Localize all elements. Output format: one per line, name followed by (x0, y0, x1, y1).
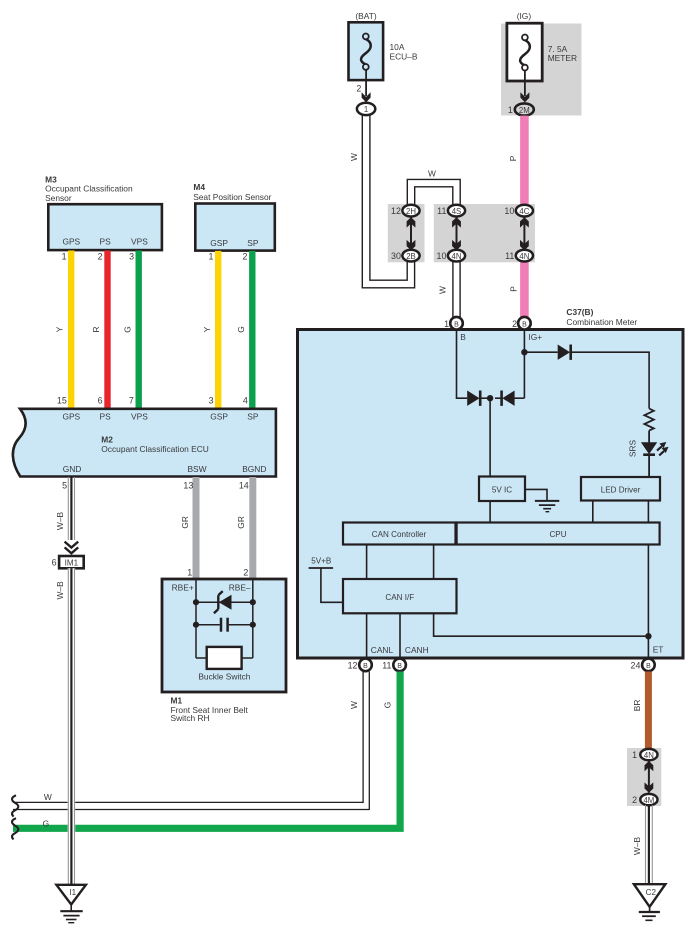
svg-text:PS: PS (100, 237, 112, 247)
node B internal wire (457, 331, 468, 398)
wire W-B (splice IM1 down to ground I1, crosses W and G) (55, 568, 75, 885)
svg-text:RBE–: RBE– (229, 582, 251, 592)
svg-text:GSP: GSP (210, 411, 228, 421)
wire BR (meter pin 24 to connector 4N) (632, 672, 649, 750)
svg-text:M2: M2 (101, 435, 113, 445)
svg-text:P: P (508, 155, 518, 161)
svg-text:VPS: VPS (131, 237, 148, 247)
5V IC to CPU wire (489, 501, 491, 523)
svg-text:4S: 4S (452, 207, 462, 216)
CAN Controller box (343, 523, 456, 545)
wire GR (M2 BSW to M1 pin 1) (180, 477, 196, 580)
wire W vertical (meter pin 12 down) (349, 672, 369, 811)
meter pin 11 (B) CANH (382, 659, 406, 672)
svg-text:Combination Meter: Combination Meter (566, 317, 637, 327)
wire from fuse METER to connector 2M (520, 70, 529, 102)
svg-text:11: 11 (505, 251, 514, 261)
svg-text:B: B (397, 663, 402, 670)
junction block shading (4N/4M connector bottom right) (627, 748, 661, 806)
connector pair 4S/4N with mating arrows (437, 205, 466, 262)
connector pair 4N/4M (bottom) with mating arrows (632, 749, 657, 805)
harness break mark (G) (12, 818, 18, 839)
svg-text:2: 2 (242, 251, 247, 261)
diode D3 (IG+ to 5V node) (495, 391, 515, 406)
svg-text:2: 2 (356, 84, 361, 94)
svg-text:1: 1 (508, 105, 513, 115)
wire G (M4 SP to M2 pin 4) (236, 251, 252, 409)
wire P from 2M to 4C (508, 116, 524, 205)
svg-text:B: B (460, 332, 466, 342)
svg-text:B: B (363, 663, 368, 670)
meter pin 1 (B) (444, 317, 463, 330)
buckle switch contact box (198, 647, 250, 682)
svg-text:Sensor: Sensor (45, 193, 72, 203)
svg-text:1: 1 (444, 319, 449, 329)
connector pair 2H/2B with mating arrows (391, 205, 420, 262)
wire GR (M2 BGND to M1 pin 2) (236, 477, 253, 580)
svg-text:W: W (349, 153, 359, 161)
ground inside meter (525, 489, 559, 511)
CANL / CANH wires to pins (367, 613, 664, 660)
ECU M2 Occupant Classification ECU (13, 396, 276, 477)
svg-text:3: 3 (129, 251, 134, 261)
svg-text:METER: METER (548, 53, 577, 63)
node to 5V IC (487, 395, 493, 477)
svg-text:4N: 4N (452, 252, 462, 261)
wire W-B (M2 GND down to splice IM1) (55, 477, 75, 540)
wire G (meter pin 11 down and left to harness break) (13, 672, 400, 829)
wire from fuse ECU-B to connector 1 (356, 70, 370, 103)
svg-text:Switch RH: Switch RH (171, 713, 210, 723)
svg-text:IG+: IG+ (528, 332, 542, 342)
svg-text:2: 2 (98, 251, 103, 261)
svg-text:12: 12 (391, 206, 401, 216)
fuse METER (IG) (507, 11, 577, 81)
svg-text:B: B (522, 321, 527, 328)
svg-text:Y: Y (202, 326, 212, 332)
svg-text:1: 1 (208, 251, 213, 261)
sensor M3 Occupant Classification Sensor (45, 174, 162, 250)
wire W horizontal (CANL to harness break) (13, 792, 369, 809)
svg-text:GND: GND (63, 464, 82, 474)
5V IC box (479, 477, 525, 502)
svg-text:24: 24 (631, 661, 641, 671)
svg-text:ECU–B: ECU–B (390, 51, 418, 61)
svg-text:7: 7 (129, 396, 134, 406)
svg-text:30: 30 (391, 251, 401, 261)
svg-text:P: P (508, 286, 518, 292)
svg-text:12: 12 (348, 661, 358, 671)
capacitor (193, 618, 256, 632)
wire R (M3 PS to M2 pin 6) (91, 251, 108, 409)
node IG+ internal wire (515, 331, 543, 398)
svg-text:5V+B: 5V+B (311, 557, 331, 566)
svg-text:10: 10 (437, 251, 447, 261)
diode D2 (B to 5V node) (467, 391, 487, 406)
connector 2M (oval) (508, 103, 534, 115)
M1 internal wiring (196, 580, 253, 659)
svg-text:IM1: IM1 (65, 558, 79, 567)
svg-text:SP: SP (247, 411, 259, 421)
svg-text:CAN Controller: CAN Controller (372, 530, 427, 539)
svg-text:ET: ET (653, 644, 664, 654)
svg-text:11: 11 (437, 206, 446, 216)
svg-text:W: W (437, 286, 447, 294)
svg-text:B: B (646, 663, 651, 670)
diode D1 (IG+ to SRS lamp) (524, 345, 649, 409)
svg-text:LED Driver: LED Driver (601, 485, 641, 494)
svg-text:1: 1 (62, 251, 67, 261)
svg-text:4N: 4N (644, 751, 654, 760)
wire Y (M4 GSP to M2 pin 3) (202, 251, 218, 409)
svg-text:2: 2 (632, 795, 637, 805)
ground I1 (56, 885, 86, 923)
svg-text:2: 2 (243, 567, 248, 577)
svg-text:W–B: W–B (55, 512, 65, 531)
meter pin 2 (B) (512, 317, 531, 330)
svg-text:4N: 4N (519, 252, 529, 261)
svg-text:GR: GR (236, 516, 246, 529)
svg-text:BSW: BSW (187, 464, 206, 474)
svg-text:G: G (43, 818, 50, 828)
harness break mark (W) (12, 795, 18, 816)
splice IM1 (52, 556, 84, 568)
svg-text:W: W (349, 701, 359, 709)
wire Y (M3 GPS to M2 pin 15) (54, 251, 71, 409)
svg-text:2H: 2H (406, 207, 416, 216)
svg-text:M4: M4 (193, 182, 205, 192)
junction block shading (2H/2B connector) (388, 204, 425, 262)
svg-text:1: 1 (364, 105, 368, 114)
svg-text:Seat Position Sensor: Seat Position Sensor (193, 192, 271, 202)
wire W from 4N down to meter pin 1 (437, 262, 460, 320)
sensor M4 Seat Position Sensor (193, 182, 275, 251)
svg-text:Y: Y (54, 326, 64, 332)
junction block shading (IG fuse area) (501, 24, 582, 116)
svg-text:G: G (123, 326, 133, 333)
svg-text:GR: GR (180, 516, 190, 529)
zener diode (RBE+ to RBE-) (193, 591, 256, 613)
fuse ECU-B (BAT) (349, 11, 418, 80)
svg-text:G: G (236, 326, 246, 333)
svg-text:5V IC: 5V IC (492, 485, 512, 494)
svg-text:Occupant Classification ECU: Occupant Classification ECU (101, 444, 209, 454)
svg-text:1: 1 (187, 567, 192, 577)
svg-text:1: 1 (632, 750, 637, 760)
svg-text:3: 3 (209, 396, 214, 406)
svg-text:14: 14 (239, 481, 249, 491)
svg-text:SRS: SRS (628, 439, 638, 457)
svg-text:C37(B): C37(B) (566, 307, 593, 317)
svg-text:2M: 2M (519, 106, 530, 115)
svg-text:GPS: GPS (62, 237, 80, 247)
M1 caption (171, 696, 249, 724)
junction block shading (4S/4N,4C/4N connector) (434, 204, 535, 262)
svg-text:W: W (428, 169, 436, 179)
svg-text:C2: C2 (646, 888, 657, 897)
wires CAN Controller to CAN I/F (367, 545, 434, 580)
wire G (M3 VPS to M2 pin 7) (123, 251, 139, 409)
svg-text:RBE+: RBE+ (172, 582, 194, 592)
svg-text:(BAT): (BAT) (355, 11, 376, 21)
resistor (644, 409, 653, 443)
svg-text:2: 2 (512, 319, 517, 329)
svg-text:VPS: VPS (131, 411, 148, 421)
svg-text:W: W (44, 792, 52, 802)
svg-text:5: 5 (62, 480, 67, 490)
svg-text:I1: I1 (69, 888, 76, 897)
svg-text:GSP: GSP (210, 238, 228, 248)
svg-text:CANL: CANL (371, 645, 394, 655)
svg-text:CAN I/F: CAN I/F (385, 593, 414, 602)
connector pair 4C/4N with mating arrows (504, 205, 533, 262)
svg-text:W–B: W–B (55, 581, 65, 600)
svg-text:6: 6 (52, 557, 57, 567)
wire W-B (connector 4M to ground C2) (632, 805, 652, 884)
CAN I/F to ET wire (434, 545, 652, 661)
svg-text:6: 6 (98, 396, 103, 406)
ground C2 (634, 884, 666, 920)
wire W from connector 1 down and right to 2B (349, 115, 414, 288)
svg-text:GPS: GPS (62, 411, 80, 421)
splice arrows into IM1 (65, 542, 79, 554)
CAN I/F box (343, 579, 457, 613)
CPU box (457, 523, 660, 545)
svg-text:BGND: BGND (242, 464, 266, 474)
svg-text:SP: SP (247, 238, 259, 248)
svg-text:4: 4 (243, 396, 248, 406)
svg-text:PS: PS (100, 411, 112, 421)
svg-text:W–B: W–B (632, 837, 642, 856)
connector 1 (oval) (357, 103, 375, 115)
svg-text:CANH: CANH (405, 645, 429, 655)
svg-text:10: 10 (504, 206, 514, 216)
svg-text:4C: 4C (519, 207, 529, 216)
svg-text:R: R (91, 326, 101, 332)
svg-text:CPU: CPU (549, 530, 566, 539)
svg-text:15: 15 (57, 396, 67, 406)
svg-text:B: B (454, 321, 459, 328)
LED Driver box (581, 477, 660, 523)
5V+B supply symbol (309, 557, 343, 603)
svg-text:BR: BR (632, 700, 642, 712)
svg-text:4M: 4M (643, 796, 654, 805)
svg-text:11: 11 (382, 661, 391, 671)
svg-text:G: G (382, 702, 392, 709)
combination meter C37(B) box (298, 307, 684, 658)
wire W from 2H up and right to 4S (407, 169, 460, 205)
meter pin 12 (B) CANL (348, 659, 372, 672)
LED SRS indicator (628, 439, 669, 477)
svg-text:(IG): (IG) (517, 11, 532, 21)
svg-text:13: 13 (183, 481, 193, 491)
meter pin 24 (B) ET (631, 659, 655, 672)
wire P from 4N down to meter pin 2 (508, 262, 524, 320)
switch M1 Front Seat Inner Belt Switch RH (162, 567, 286, 692)
svg-text:Buckle Switch: Buckle Switch (198, 671, 250, 681)
svg-text:2B: 2B (406, 252, 416, 261)
